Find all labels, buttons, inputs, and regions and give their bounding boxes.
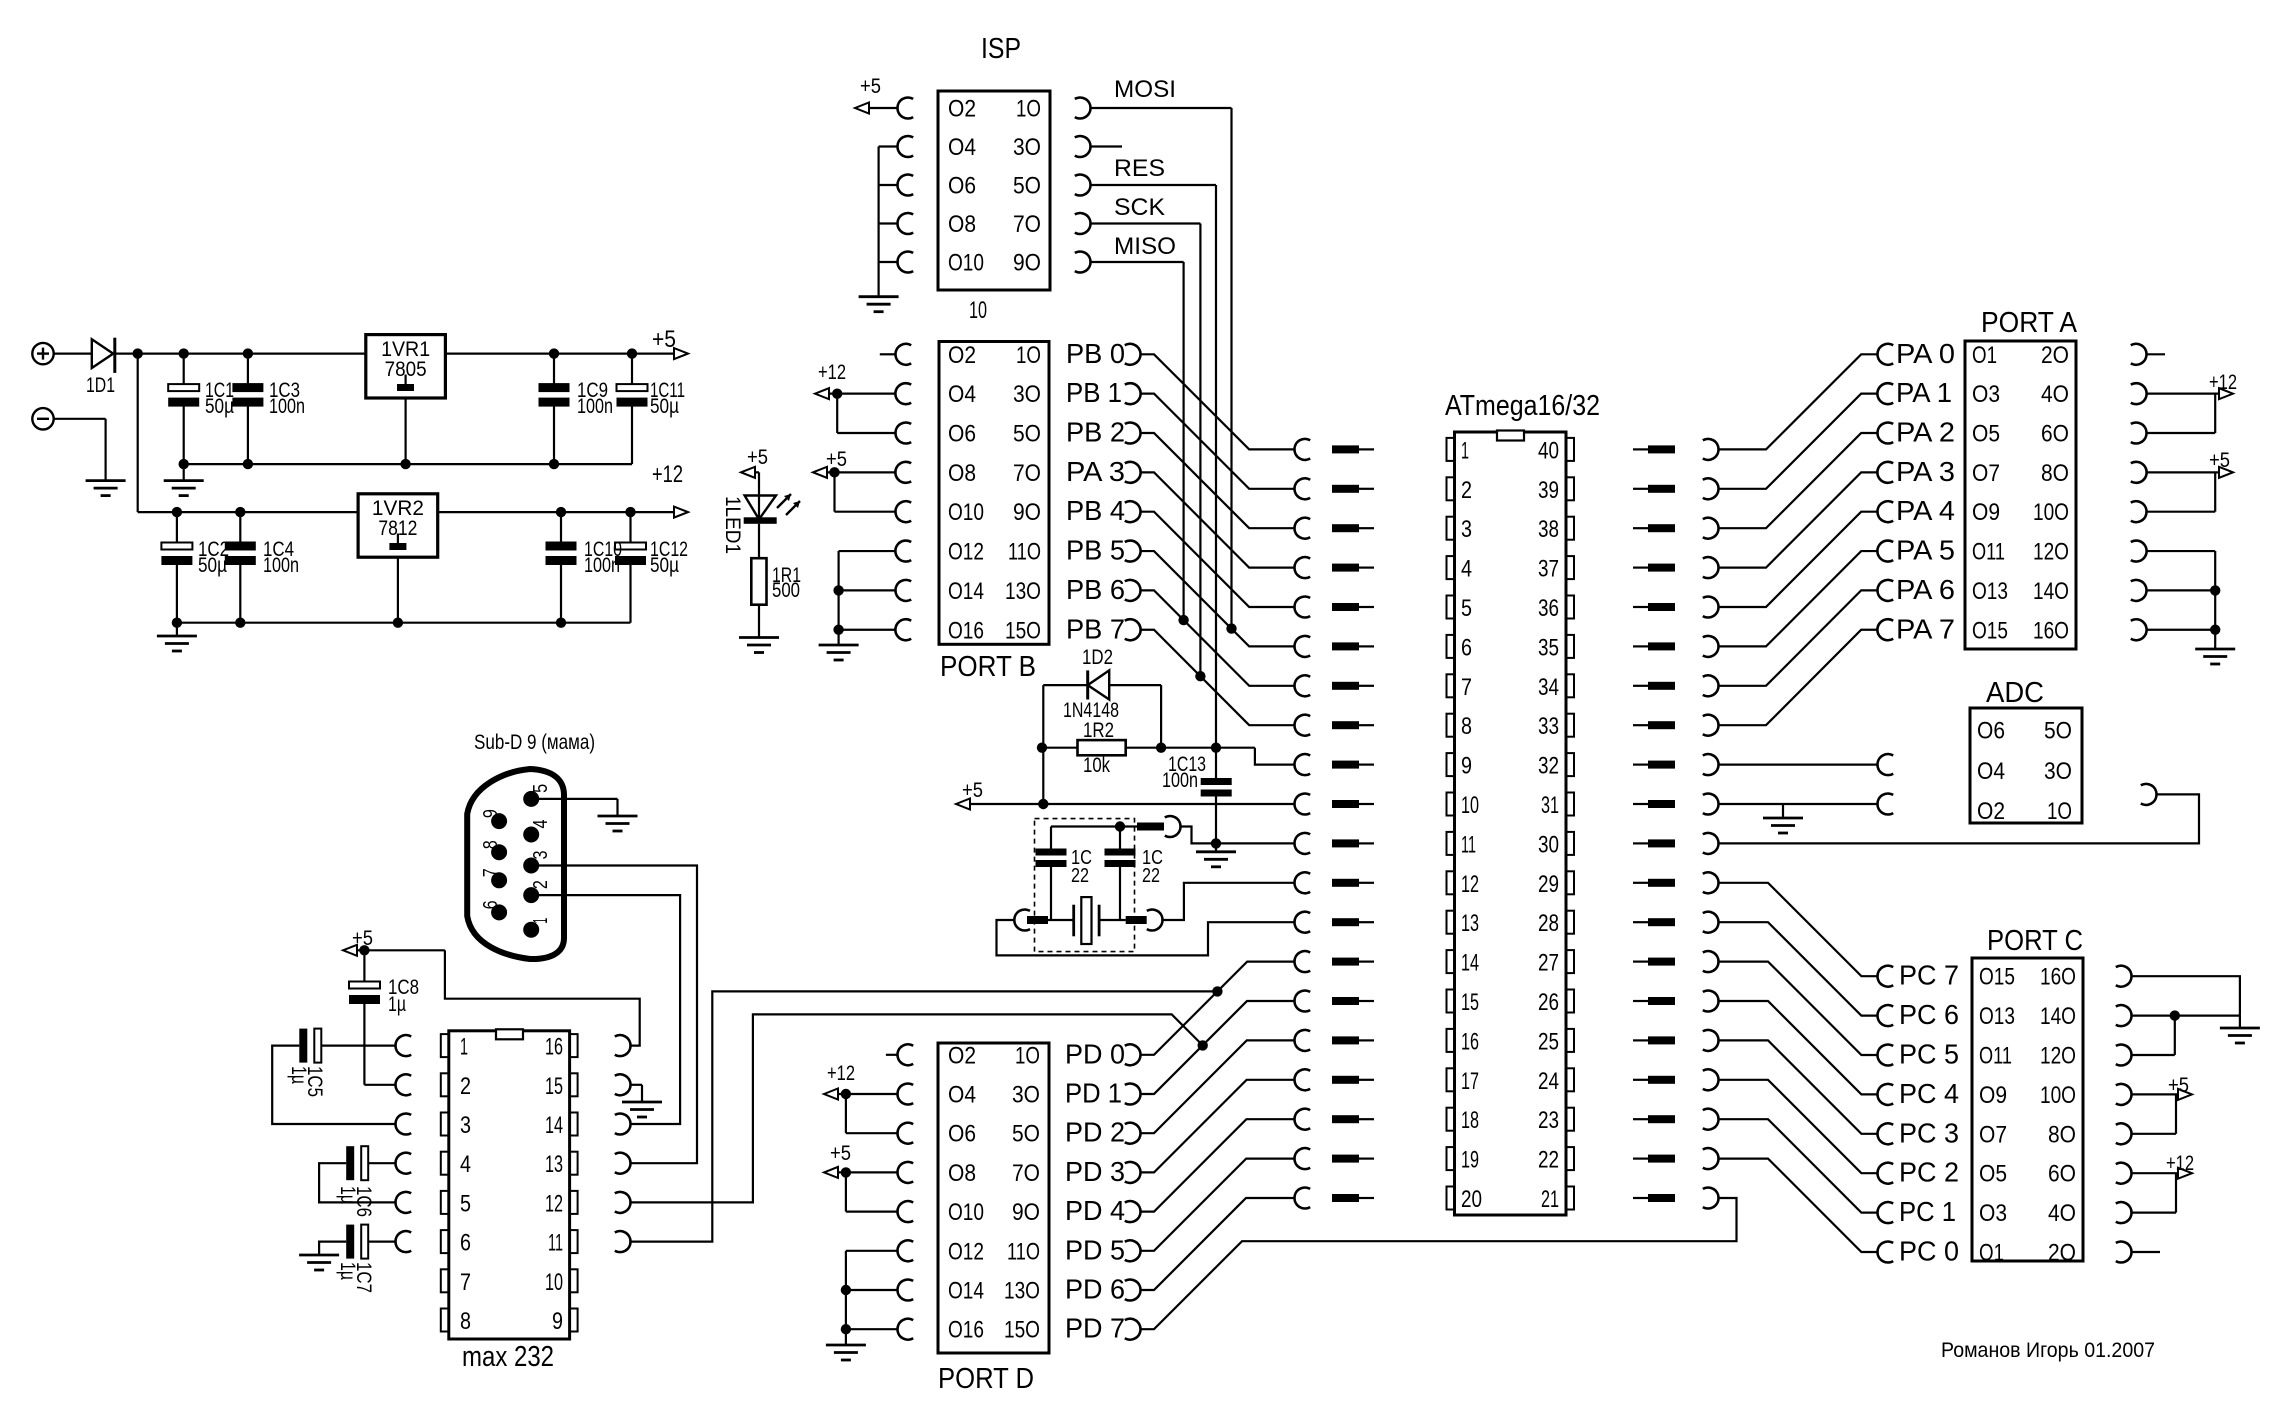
svg-text:1: 1: [530, 918, 552, 924]
svg-text:31: 31: [1541, 792, 1559, 819]
svg-text:11O: 11O: [1008, 539, 1041, 566]
svg-text:+12: +12: [652, 461, 683, 488]
svg-text:50µ: 50µ: [650, 395, 679, 418]
svg-text:PD 6: PD 6: [1065, 1274, 1125, 1305]
svg-text:5O: 5O: [1013, 421, 1041, 448]
svg-text:22: 22: [1142, 865, 1160, 887]
svg-text:15O: 15O: [1005, 617, 1041, 644]
svg-text:O15: O15: [1979, 964, 2015, 991]
svg-text:O13: O13: [1979, 1003, 2015, 1030]
svg-text:2: 2: [1461, 477, 1472, 504]
svg-text:50µ: 50µ: [198, 554, 227, 577]
svg-text:4O: 4O: [2048, 1200, 2076, 1227]
svg-text:O14: O14: [948, 1278, 984, 1305]
svg-text:PC 0: PC 0: [1899, 1236, 1959, 1267]
svg-text:O13: O13: [1972, 578, 2008, 605]
svg-text:+5: +5: [860, 75, 881, 98]
svg-text:O2: O2: [1977, 798, 2005, 825]
svg-text:1µ: 1µ: [336, 1262, 359, 1280]
svg-text:1O: 1O: [1015, 1042, 1040, 1069]
svg-text:O10: O10: [948, 250, 984, 277]
svg-text:36: 36: [1538, 595, 1559, 622]
svg-text:3O: 3O: [2044, 758, 2072, 785]
svg-text:16O: 16O: [2033, 617, 2069, 644]
svg-text:10: 10: [545, 1269, 563, 1296]
svg-text:+5: +5: [962, 779, 983, 802]
svg-text:O11: O11: [1979, 1043, 2012, 1070]
svg-text:PD 1: PD 1: [1065, 1078, 1122, 1109]
svg-text:O4: O4: [948, 134, 976, 161]
svg-text:50µ: 50µ: [205, 395, 234, 418]
svg-text:6O: 6O: [2041, 421, 2069, 448]
svg-text:9: 9: [1461, 753, 1472, 780]
svg-text:10O: 10O: [2033, 499, 2069, 526]
svg-text:PB 2: PB 2: [1066, 417, 1125, 448]
svg-text:max 232: max 232: [462, 1341, 554, 1373]
svg-text:O2: O2: [948, 96, 976, 123]
svg-text:O3: O3: [1979, 1200, 2007, 1227]
svg-text:O11: O11: [1972, 539, 2005, 566]
svg-text:3O: 3O: [1013, 134, 1041, 161]
svg-text:+5: +5: [830, 1142, 851, 1165]
svg-text:O2: O2: [948, 342, 976, 369]
svg-text:O16: O16: [948, 617, 984, 644]
svg-text:4: 4: [1461, 556, 1472, 583]
svg-text:1: 1: [1461, 437, 1469, 464]
svg-text:7O: 7O: [1013, 211, 1041, 238]
svg-text:6: 6: [460, 1230, 471, 1257]
svg-text:PD 4: PD 4: [1065, 1195, 1125, 1226]
svg-text:4: 4: [530, 820, 552, 829]
svg-text:18: 18: [1461, 1107, 1479, 1134]
svg-text:PC 2: PC 2: [1899, 1157, 1959, 1188]
svg-text:19: 19: [1461, 1147, 1479, 1174]
svg-text:100n: 100n: [577, 395, 613, 418]
svg-text:3: 3: [530, 851, 552, 860]
svg-text:15O: 15O: [1004, 1317, 1040, 1344]
svg-text:PORT B: PORT B: [940, 651, 1036, 683]
svg-text:PA 6: PA 6: [1896, 574, 1955, 605]
svg-text:PC 6: PC 6: [1899, 999, 1959, 1030]
svg-text:MOSI: MOSI: [1114, 76, 1176, 103]
svg-text:O8: O8: [948, 1160, 976, 1187]
svg-text:1O: 1O: [2047, 798, 2072, 825]
svg-text:27: 27: [1538, 950, 1559, 977]
svg-text:100n: 100n: [584, 554, 620, 577]
svg-text:14: 14: [545, 1112, 563, 1139]
svg-text:21: 21: [1541, 1186, 1559, 1213]
svg-text:O1: O1: [1979, 1240, 2004, 1267]
svg-text:10O: 10O: [2040, 1082, 2076, 1109]
svg-text:PORT C: PORT C: [1987, 925, 2083, 957]
svg-text:13: 13: [545, 1151, 563, 1178]
svg-text:100n: 100n: [269, 395, 305, 418]
svg-text:O6: O6: [948, 173, 976, 200]
svg-text:1µ: 1µ: [388, 993, 406, 1016]
svg-text:+5: +5: [652, 326, 676, 353]
svg-text:8: 8: [460, 1308, 471, 1335]
svg-text:16: 16: [545, 1034, 563, 1061]
svg-text:2: 2: [530, 880, 552, 889]
svg-text:2O: 2O: [2048, 1240, 2076, 1267]
svg-text:10k: 10k: [1083, 754, 1110, 777]
svg-text:8O: 8O: [2041, 460, 2069, 487]
svg-text:+5: +5: [2209, 449, 2230, 472]
svg-text:15: 15: [545, 1073, 563, 1100]
svg-text:26: 26: [1538, 989, 1559, 1016]
svg-text:28: 28: [1538, 910, 1559, 937]
svg-text:30: 30: [1538, 831, 1559, 858]
svg-text:2: 2: [460, 1073, 471, 1100]
svg-text:O8: O8: [948, 460, 976, 487]
svg-text:13O: 13O: [1004, 1278, 1040, 1305]
svg-text:11: 11: [548, 1230, 563, 1257]
svg-text:5: 5: [530, 784, 552, 793]
svg-text:9: 9: [480, 809, 502, 818]
svg-text:29: 29: [1538, 871, 1559, 898]
svg-text:+12: +12: [827, 1062, 855, 1085]
svg-text:2O: 2O: [2041, 342, 2069, 369]
svg-text:12: 12: [1461, 871, 1479, 898]
svg-text:PORT A: PORT A: [1981, 307, 2078, 339]
svg-text:7: 7: [1461, 674, 1472, 701]
svg-text:O3: O3: [1972, 381, 2000, 408]
svg-text:PA 3: PA 3: [1896, 456, 1955, 487]
svg-text:13: 13: [1461, 910, 1479, 937]
svg-text:O9: O9: [1972, 499, 2000, 526]
svg-text:PA 5: PA 5: [1896, 535, 1955, 566]
svg-text:PA 1: PA 1: [1896, 377, 1952, 408]
svg-text:PA 3: PA 3: [1066, 456, 1125, 487]
svg-text:O6: O6: [948, 421, 976, 448]
svg-text:O10: O10: [948, 499, 984, 526]
svg-text:32: 32: [1538, 753, 1559, 780]
svg-text:37: 37: [1538, 556, 1559, 583]
svg-text:7: 7: [460, 1269, 471, 1296]
svg-text:O6: O6: [1977, 718, 2005, 745]
svg-text:3: 3: [1461, 516, 1472, 543]
svg-text:39: 39: [1538, 477, 1559, 504]
svg-text:+12: +12: [2209, 371, 2237, 394]
svg-text:+5: +5: [2168, 1074, 2189, 1097]
svg-text:7: 7: [480, 868, 502, 877]
svg-text:4: 4: [460, 1151, 471, 1178]
svg-text:11: 11: [1461, 831, 1476, 858]
svg-text:9O: 9O: [1013, 499, 1041, 526]
svg-text:6: 6: [480, 900, 502, 909]
svg-text:PB 5: PB 5: [1066, 535, 1125, 566]
svg-text:16O: 16O: [2040, 964, 2076, 991]
svg-text:PA 0: PA 0: [1896, 338, 1955, 369]
svg-text:O12: O12: [948, 1238, 984, 1265]
svg-text:1R2: 1R2: [1083, 719, 1114, 742]
svg-text:1D1: 1D1: [86, 374, 115, 397]
svg-text:9O: 9O: [1013, 250, 1041, 277]
svg-text:PD 5: PD 5: [1065, 1234, 1125, 1265]
svg-text:1O: 1O: [1016, 342, 1041, 369]
svg-text:Романов Игорь 01.2007: Романов Игорь 01.2007: [1941, 1338, 2155, 1362]
svg-text:+12: +12: [2166, 1152, 2194, 1175]
svg-text:PA 7: PA 7: [1896, 613, 1955, 644]
svg-text:O5: O5: [1979, 1161, 2007, 1188]
svg-text:14O: 14O: [2040, 1003, 2076, 1030]
svg-text:10: 10: [969, 297, 987, 324]
svg-text:38: 38: [1538, 516, 1559, 543]
svg-text:PC 1: PC 1: [1899, 1196, 1956, 1227]
svg-text:5O: 5O: [1013, 173, 1041, 200]
svg-text:12: 12: [545, 1190, 563, 1217]
svg-text:O10: O10: [948, 1199, 984, 1226]
svg-text:PB 4: PB 4: [1066, 495, 1125, 526]
svg-text:7O: 7O: [1012, 1160, 1040, 1187]
svg-text:35: 35: [1538, 634, 1559, 661]
svg-text:16: 16: [1461, 1028, 1479, 1055]
svg-text:O14: O14: [948, 578, 984, 605]
svg-text:5: 5: [1461, 595, 1472, 622]
svg-text:O4: O4: [948, 381, 976, 408]
svg-text:PB 1: PB 1: [1066, 377, 1122, 408]
svg-text:PC 7: PC 7: [1899, 960, 1959, 991]
svg-text:ADC: ADC: [1986, 677, 2044, 709]
svg-text:13O: 13O: [1005, 578, 1041, 605]
svg-text:50µ: 50µ: [650, 554, 679, 577]
svg-text:14: 14: [1461, 950, 1479, 977]
svg-text:11O: 11O: [1007, 1238, 1040, 1265]
svg-text:1: 1: [460, 1034, 468, 1061]
svg-text:PD 2: PD 2: [1065, 1117, 1125, 1148]
svg-text:PB 7: PB 7: [1066, 613, 1125, 644]
svg-text:15: 15: [1461, 989, 1479, 1016]
svg-text:PB 6: PB 6: [1066, 574, 1125, 605]
svg-text:8O: 8O: [2048, 1121, 2076, 1148]
svg-text:40: 40: [1538, 437, 1559, 464]
svg-text:24: 24: [1538, 1068, 1559, 1095]
svg-text:PD 0: PD 0: [1065, 1038, 1125, 1069]
svg-text:34: 34: [1538, 674, 1559, 701]
svg-text:SCK: SCK: [1114, 194, 1165, 221]
svg-text:O2: O2: [948, 1042, 976, 1069]
svg-text:O1: O1: [1972, 342, 1997, 369]
svg-text:+12: +12: [818, 361, 846, 384]
svg-text:22: 22: [1538, 1147, 1559, 1174]
svg-text:23: 23: [1538, 1107, 1559, 1134]
svg-text:12O: 12O: [2040, 1043, 2076, 1070]
svg-text:ATmega16/32: ATmega16/32: [1445, 390, 1600, 422]
svg-text:PA 4: PA 4: [1896, 495, 1955, 526]
svg-text:4O: 4O: [2041, 381, 2069, 408]
svg-text:3O: 3O: [1012, 1082, 1040, 1109]
svg-text:20: 20: [1461, 1186, 1482, 1213]
svg-text:12O: 12O: [2033, 539, 2069, 566]
svg-text:22: 22: [1071, 865, 1089, 887]
svg-text:5O: 5O: [2044, 718, 2072, 745]
svg-text:25: 25: [1538, 1028, 1559, 1055]
svg-text:33: 33: [1538, 713, 1559, 740]
svg-text:7O: 7O: [1013, 460, 1041, 487]
svg-text:O7: O7: [1972, 460, 2000, 487]
svg-text:O15: O15: [1972, 617, 2008, 644]
svg-text:14O: 14O: [2033, 578, 2069, 605]
svg-text:PA 2: PA 2: [1896, 417, 1955, 448]
svg-text:17: 17: [1461, 1068, 1479, 1095]
svg-text:O4: O4: [948, 1082, 976, 1109]
svg-text:O4: O4: [1977, 758, 2005, 785]
svg-text:O7: O7: [1979, 1121, 2007, 1148]
svg-text:MISO: MISO: [1114, 233, 1176, 260]
svg-text:9O: 9O: [1012, 1199, 1040, 1226]
svg-text:PC 3: PC 3: [1899, 1117, 1959, 1148]
svg-text:+5: +5: [747, 446, 768, 469]
svg-text:O16: O16: [948, 1317, 984, 1344]
svg-text:6: 6: [1461, 634, 1472, 661]
svg-text:3O: 3O: [1013, 381, 1041, 408]
svg-text:O5: O5: [1972, 421, 2000, 448]
svg-text:RES: RES: [1114, 155, 1165, 182]
svg-text:1µ: 1µ: [287, 1066, 310, 1084]
svg-text:PORT D: PORT D: [938, 1363, 1034, 1395]
svg-text:1µ: 1µ: [336, 1186, 359, 1204]
svg-text:100n: 100n: [1162, 769, 1198, 792]
svg-text:8: 8: [1461, 713, 1472, 740]
svg-text:+5: +5: [826, 448, 847, 471]
svg-text:O12: O12: [948, 539, 984, 566]
svg-text:5O: 5O: [1012, 1121, 1040, 1148]
svg-text:1LED1: 1LED1: [721, 496, 744, 554]
svg-text:500: 500: [772, 579, 800, 602]
svg-text:1O: 1O: [1016, 96, 1041, 123]
svg-text:O6: O6: [948, 1121, 976, 1148]
svg-text:ISP: ISP: [981, 33, 1021, 65]
svg-text:Sub-D 9 (мама): Sub-D 9 (мама): [474, 731, 595, 754]
svg-text:O8: O8: [948, 211, 976, 238]
svg-text:8: 8: [480, 840, 502, 849]
svg-text:PB 0: PB 0: [1066, 338, 1125, 369]
svg-text:PC 5: PC 5: [1899, 1039, 1959, 1070]
svg-text:9: 9: [552, 1308, 563, 1335]
svg-text:5: 5: [460, 1190, 471, 1217]
svg-text:PD 3: PD 3: [1065, 1156, 1125, 1187]
svg-text:PC 4: PC 4: [1899, 1078, 1959, 1109]
svg-text:PD 7: PD 7: [1065, 1313, 1125, 1344]
svg-text:10: 10: [1461, 792, 1479, 819]
svg-text:O9: O9: [1979, 1082, 2007, 1109]
svg-text:100n: 100n: [263, 554, 299, 577]
svg-text:6O: 6O: [2048, 1161, 2076, 1188]
svg-text:3: 3: [460, 1112, 471, 1139]
svg-text:1D2: 1D2: [1082, 646, 1113, 669]
